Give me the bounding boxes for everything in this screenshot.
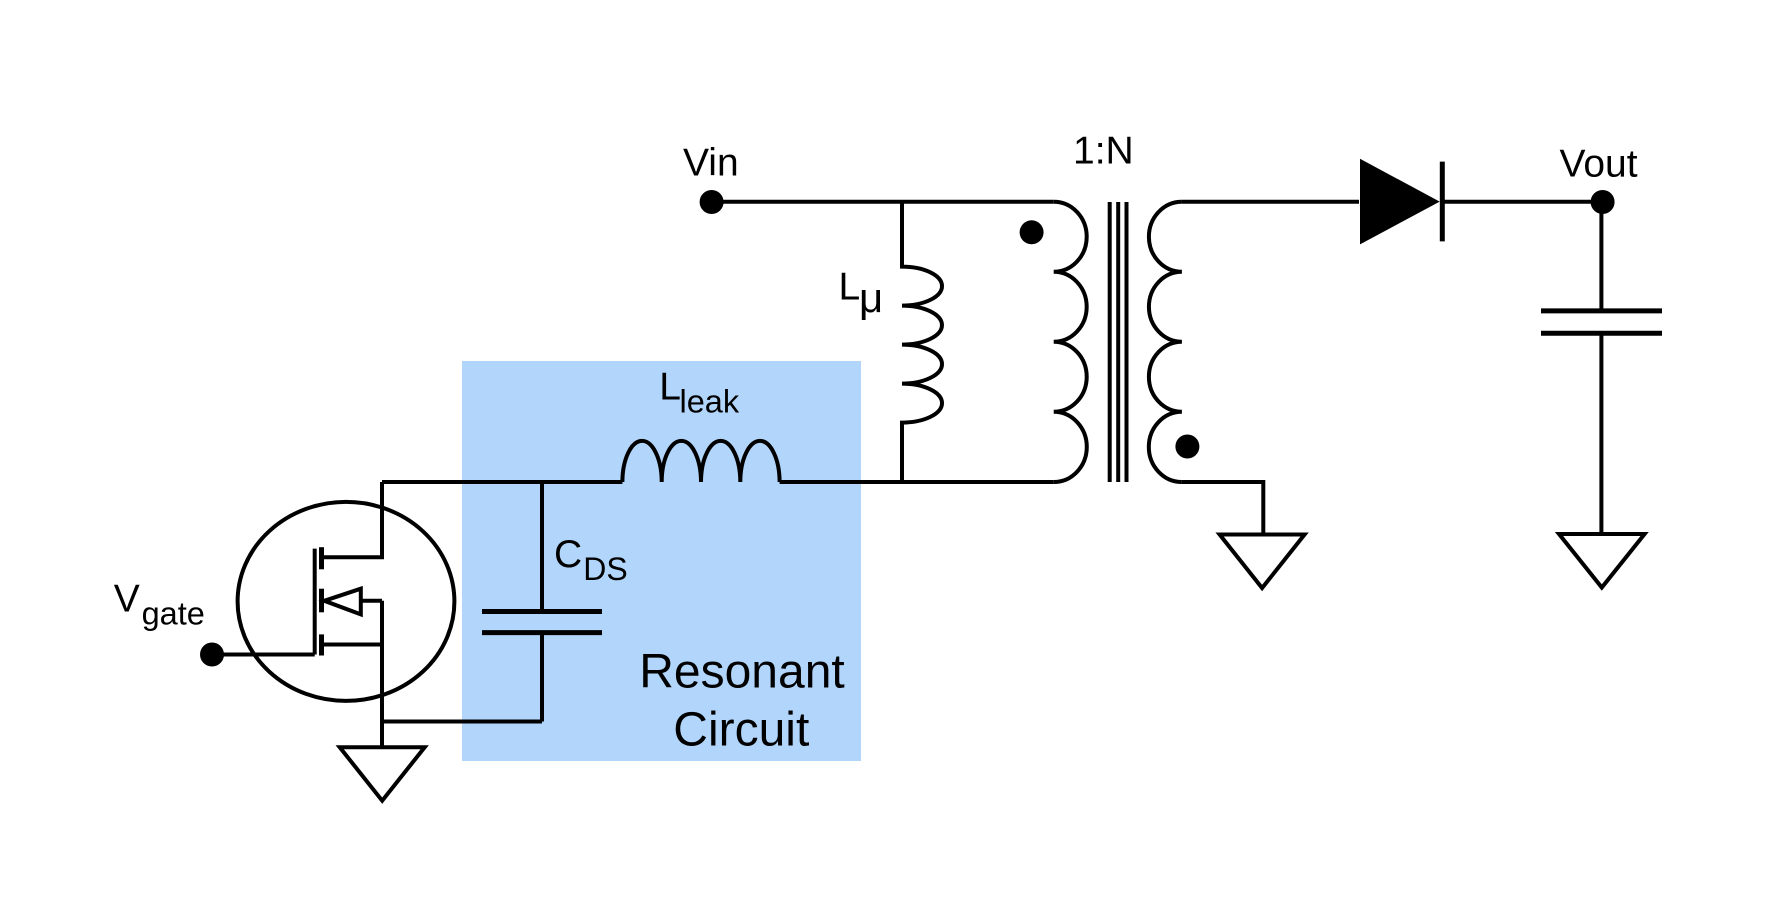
capacitor Cout wire bottom [1599,333,1603,534]
transformer secondary winding [1149,202,1182,482]
wire top rail Vin to primary [712,200,1054,204]
transformer core [1108,202,1112,482]
node Vout dot [1591,190,1615,214]
node Vin dot [700,190,724,214]
mosfet Q1 body arrow [324,589,361,615]
svg-text:Resonant: Resonant [639,645,844,698]
mosfet Q1 body lead [361,599,382,603]
svg-text:Vgate: Vgate [114,578,205,632]
capacitor Cout wire top [1599,202,1603,311]
mosfet Q1 source wire down [380,601,384,747]
capacitor CDS wire top [540,482,544,612]
node Vgate dot [200,643,224,667]
diode D1 cathode bar [1440,162,1445,242]
mosfet Q1 gate line [313,549,317,655]
inductor L_mu with branch wires [902,202,942,482]
wire mid rail left [382,480,622,484]
capacitor CDS plates [482,612,602,633]
wire diode to Vout [1444,200,1603,204]
transformer primary winding [1054,202,1087,482]
svg-text:Vin: Vin [683,141,739,184]
svg-text:1:N: 1:N [1073,130,1134,173]
mosfet Q1 channel dashes [319,547,324,655]
mosfet Q1 drain stub [324,482,382,557]
wire secondary top to diode [1182,200,1359,204]
mosfet Q1 body ellipse [238,502,455,701]
transformer primary polarity dot [1020,220,1044,244]
svg-text:Vout: Vout [1560,142,1638,185]
svg-text:Lμ: Lμ [839,266,884,321]
capacitor Cout plates [1541,311,1662,333]
wire secondary bottom to ground [1182,482,1263,535]
wire gate lead [212,653,315,657]
wire source to CDS bottom [382,720,542,724]
ground under Cout [1559,534,1645,588]
diode D1 triangle [1360,159,1440,245]
transformer secondary polarity dot [1175,435,1199,459]
ground under mosfet [340,747,425,801]
wire mid rail right [780,480,1054,484]
ground under secondary [1220,535,1305,589]
resonant circuit highlight box [462,361,861,761]
capacitor CDS wire bottom [540,633,544,722]
inductor L_leak [622,441,779,482]
svg-text:Circuit: Circuit [673,704,809,757]
mosfet Q1 source stub [324,643,382,647]
